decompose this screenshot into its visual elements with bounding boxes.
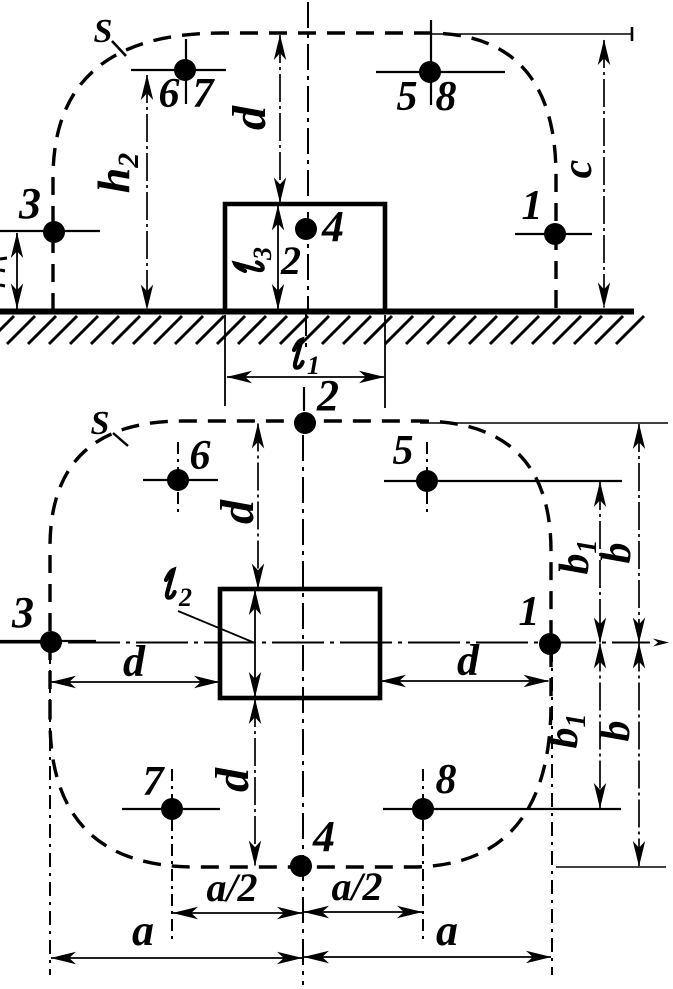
label S (plan) with leader tick [91, 405, 128, 446]
charges 5 and 8 (elevation) [376, 20, 505, 120]
svg-text:c: c [555, 159, 601, 178]
charges 6 and 7 (elevation) [131, 39, 226, 117]
charge 1 (plan) [519, 589, 562, 655]
charge 3 (plan) [0, 588, 96, 653]
svg-text:2: 2 [178, 583, 192, 612]
dimension b (upper right) + top extension line [420, 423, 668, 643]
charge 5 (plan) [384, 428, 622, 512]
contour S (plan, dashed rounded square) [50, 421, 551, 867]
svg-text:8: 8 [436, 74, 457, 120]
building outline (elevation rectangle) [225, 204, 385, 311]
dimension b (lower right) + bottom extension line [556, 644, 666, 868]
svg-text:4: 4 [321, 202, 344, 251]
ground hatching [0, 316, 644, 344]
svg-text:a/2: a/2 [331, 864, 382, 909]
dimension h2 (elevation) [88, 75, 147, 310]
dimension a/2 (left) [173, 865, 302, 913]
charge 7 (plan) [122, 759, 220, 940]
charge 4 (elevation) [295, 202, 344, 251]
svg-text:d: d [206, 767, 259, 792]
dimension b1 (upper right) [552, 482, 603, 643]
svg-text:2: 2 [316, 371, 339, 420]
dimension c (elevation) + top extension line [430, 27, 633, 308]
svg-text:b: b [594, 543, 640, 564]
svg-text:3: 3 [11, 588, 34, 637]
dimension a (left) [51, 906, 302, 958]
svg-text:6: 6 [159, 71, 180, 117]
dimension l2 (plan rectangle) with leader and label [166, 570, 255, 697]
vertical centerline (plan) [303, 387, 304, 985]
svg-text:a: a [132, 906, 154, 955]
svg-text:4: 4 [312, 812, 335, 861]
building outline (plan rectangle) [220, 589, 380, 698]
svg-text:7: 7 [143, 759, 166, 805]
svg-text:3: 3 [248, 247, 277, 261]
dimension a (right) [304, 906, 551, 957]
svg-text:d: d [123, 637, 146, 686]
svg-text:a: a [436, 906, 458, 955]
dimension d (plan right) [381, 636, 549, 685]
svg-text:2: 2 [280, 238, 301, 283]
svg-text:b: b [593, 721, 639, 742]
charge 8 (plan) [383, 757, 621, 940]
svg-text:d: d [457, 636, 480, 685]
svg-text:3: 3 [18, 179, 41, 228]
svg-text:1: 1 [522, 183, 543, 229]
label 2 (elevation centerline) [280, 238, 301, 283]
extension line (plan right, x=552) [551, 648, 553, 975]
svg-text:S: S [91, 405, 110, 442]
charge 4 (plan) [290, 812, 335, 877]
extension line (plan left, x=50) [49, 650, 51, 975]
dimension d (elevation) [223, 35, 280, 203]
dimension l3 (elevation) [235, 206, 278, 310]
svg-text:d: d [211, 499, 264, 524]
dimension l1 (below ground) + extension lines [225, 315, 385, 408]
svg-text:7: 7 [193, 71, 216, 117]
dimension d (plan bottom) [206, 699, 259, 866]
ground line (elevation) [0, 309, 634, 315]
horizontal centerline (plan) with end arrow [0, 639, 669, 647]
charge 6 (plan) [143, 433, 218, 515]
svg-text:5: 5 [393, 428, 414, 474]
svg-text:6: 6 [190, 433, 211, 479]
charge 2 (plan) [294, 371, 339, 434]
svg-text:5: 5 [397, 74, 418, 120]
svg-text:1: 1 [519, 589, 540, 635]
svg-text:8: 8 [436, 757, 457, 803]
contour S (elevation, dashed dome) [53, 33, 556, 311]
svg-text:S: S [94, 13, 113, 50]
svg-text:d: d [223, 105, 276, 130]
dimension d (plan top) [211, 424, 264, 589]
centerline (elevation vertical axis) [306, 2, 308, 348]
svg-text:a/2: a/2 [206, 865, 257, 910]
dimension h1 (left edge, label cut off) [0, 233, 17, 309]
dimension d (plan left) [51, 637, 219, 686]
dimension b1 (lower right) [541, 644, 600, 809]
charge 1 (elevation) [515, 183, 592, 245]
label S (elevation) with leader tick [94, 13, 126, 56]
dimension a/2 (right) [304, 864, 422, 912]
charge 3 (elevation) [0, 179, 100, 243]
